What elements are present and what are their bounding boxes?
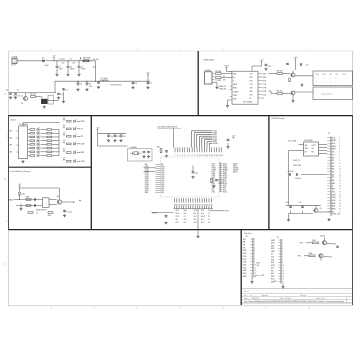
pin stub [187,206,189,209]
LED D15 [74,159,77,163]
pin stub [201,147,203,152]
pin stub [278,272,281,274]
pin stub [219,171,222,173]
connector J1 VIN input [11,56,18,66]
pin stub [208,147,210,152]
svg-text:IO15: IO15 [271,265,275,267]
svg-text:IO13: IO13 [161,190,165,192]
pin stub [278,261,281,263]
svg-text:IO0: IO0 [336,74,339,76]
wire [36,96,42,98]
svg-text:C: C [4,263,6,266]
capacitor C16 [34,204,36,207]
wire [327,243,333,245]
power +3V3 [232,135,236,138]
pin stub [16,151,19,153]
svg-text:USB_DP: USB_DP [219,86,227,88]
svg-text:C30: C30 [286,202,289,204]
svg-text:IO5: IO5 [176,219,179,221]
table note box [313,71,352,86]
wire [22,123,24,127]
svg-text:37: 37 [220,191,222,193]
pin stub [250,238,253,240]
svg-text:L1 10uH: L1 10uH [101,78,108,80]
svg-text:BS0: BS0 [332,203,335,205]
resistor R4 [277,70,283,75]
svg-text:CHREN: CHREN [233,91,238,93]
pin stub [278,250,281,252]
wire [288,151,290,206]
resistor R35 [289,78,291,82]
pin stub [203,198,205,202]
capacitor C4 [77,81,82,86]
connector J4 body [252,238,254,278]
svg-text:8: 8 [192,155,193,157]
svg-text:BOOT: BOOT [201,216,205,218]
pin stub [183,206,185,209]
svg-text:IO2: IO2 [271,268,274,270]
wire [77,128,80,130]
right pin numbers [220,163,222,193]
svg-text:RW: RW [332,189,335,191]
pin stub [327,142,331,144]
ground [57,96,60,99]
svg-text:C5: C5 [89,84,91,86]
connector J3 pin labels [332,137,337,213]
ground [62,100,65,103]
ground [165,155,168,158]
wire [261,63,263,66]
wire [324,238,326,241]
svg-text:R32 10k: R32 10k [218,179,224,181]
pin stub [327,176,331,178]
svg-text:USB-UART: USB-UART [204,58,216,61]
wire [204,139,212,141]
connector J4 net labels [243,239,247,278]
pin stub [194,198,196,202]
pin stub [184,147,186,152]
svg-text:SCL: SCL [332,143,335,145]
svg-text:VSL: VSL [332,191,335,193]
svg-text:D+: D+ [233,77,235,79]
svg-text:R33: R33 [312,240,315,242]
pin stub [278,267,281,269]
pin stub [191,147,193,152]
svg-text:SCL: SCL [257,265,260,267]
resistor R1 [30,94,36,98]
wire [25,93,27,97]
wire [95,61,97,81]
ground [146,86,149,89]
pin stub [250,244,253,246]
pin stub [327,196,331,198]
svg-text:CHR1: CHR1 [233,95,237,97]
svg-text:TPS62080DSG: TPS62080DSG [110,84,122,86]
svg-text:RTS: RTS [323,74,326,76]
LED D5 [37,138,40,142]
pin stub [219,175,222,177]
svg-text:17: 17 [339,183,341,185]
connector J2 USB [205,70,215,84]
svg-text:+3V3: +3V3 [96,127,100,129]
svg-text:IO27: IO27 [213,134,217,136]
pin stub [327,171,331,173]
svg-text:IO35: IO35 [161,172,165,174]
svg-text:IO27: IO27 [243,267,247,269]
ground [97,86,100,89]
connector J4 pin numbers [254,239,256,278]
pin stub [327,154,331,156]
transistor Q6 [322,241,327,245]
svg-text:J5: J5 [277,237,279,239]
pin stub [327,162,331,164]
pin stub [155,169,160,171]
svg-text:CS: CS [184,216,186,218]
svg-text:Q1: Q1 [21,103,23,105]
pin stub [180,206,182,209]
pin stub [327,182,331,184]
wire [271,93,277,95]
power +3V3 [63,133,66,136]
wire [201,138,203,147]
power +3V3 [146,72,150,76]
svg-text:10uF: 10uF [59,69,63,71]
pin stub [28,129,31,131]
pin stub [250,275,253,277]
svg-text:10: 10 [339,163,341,165]
resistor R16 [47,136,52,138]
svg-text:IO17: IO17 [271,279,275,281]
capacitor C12 [265,64,268,67]
LED D8 [37,149,40,153]
resistor R2 [215,71,222,75]
svg-text:12: 12 [282,270,284,272]
wire [203,140,205,148]
wire [269,90,272,92]
wire [63,92,65,100]
wire [191,131,193,148]
resistor R8 [30,136,35,138]
right pin net labels [223,164,228,194]
capacitor C1 [56,61,63,73]
svg-text:22: 22 [339,197,341,199]
ground [291,100,294,103]
junction [56,60,57,61]
svg-text:IO0: IO0 [271,270,274,272]
svg-text:SCL: SCL [184,213,187,215]
pin stub [327,137,331,139]
pin stub [199,206,201,209]
wire [269,73,278,75]
ground [287,219,290,222]
pin stub [278,275,281,277]
wire [295,75,313,77]
LED D12 [74,134,77,138]
bottom net labels group 1 [176,209,188,224]
wire [52,143,59,145]
LED D2 [37,127,40,131]
pin stub [194,147,196,152]
junction [77,81,78,82]
svg-text:0: 0 [323,78,324,80]
wire bus [58,130,60,156]
pin stub [190,198,192,202]
svg-text:3: 3 [179,155,180,157]
power +5V USB [224,65,230,69]
ground [9,96,12,99]
svg-text:SD1: SD1 [271,262,274,264]
wire [207,141,213,143]
wire [41,132,48,134]
ground [131,86,134,89]
svg-text:MTDO: MTDO [233,164,238,166]
svg-text:IO36: IO36 [161,166,165,168]
svg-text:IO32: IO32 [243,256,247,258]
capacitor C34 [97,81,100,84]
pin stub [201,198,203,202]
capacitor C24 [227,139,230,142]
capacitor C2 [67,61,75,73]
pin stub [199,147,201,152]
pin stub [219,183,222,185]
pin stub [250,252,253,254]
svg-text:16: 16 [339,180,341,182]
svg-text:C29 1uF: C29 1uF [295,178,301,180]
svg-text:IO0: IO0 [330,257,333,259]
svg-text:9: 9 [194,155,195,157]
LED D13 [74,141,77,145]
capacitor C13 [300,63,302,66]
svg-text:OLED_RES: OLED_RES [293,165,301,167]
svg-text:U1: U1 [41,97,43,99]
svg-text:OLED_VCC: OLED_VCC [332,214,342,216]
pin stub [28,132,31,134]
wire [252,65,262,67]
svg-text:SD0: SD0 [271,259,274,261]
svg-text:C12: C12 [268,66,271,68]
svg-text:U0RXD: U0RXD [233,170,239,172]
pin stub [174,206,176,209]
resistor R32 [211,179,213,183]
svg-text:21: 21 [339,194,341,196]
pin stub RXD [258,76,262,78]
svg-text:15: 15 [282,279,284,281]
connector J5 pin numbers [282,240,284,284]
svg-text:IO32: IO32 [161,174,165,176]
wire [289,213,314,215]
pin stub [192,198,194,202]
svg-text:R28: R28 [26,197,29,199]
connector J5 body [280,239,282,284]
transistor Q7 [318,254,323,258]
power +3V3 [260,59,264,63]
pin stub [178,206,180,209]
ground [66,73,69,76]
svg-text:1: 1 [316,78,317,80]
ground [107,139,110,142]
pin stub [219,177,222,179]
pin stub [155,177,160,179]
wire [226,69,228,72]
resistor R5 [277,91,283,95]
wire [319,144,328,146]
svg-text:25: 25 [220,167,222,169]
svg-text:IO16: IO16 [271,276,275,278]
pin stub [155,179,160,181]
pin stub [155,187,160,189]
pin stub [219,181,222,183]
wire [52,155,59,157]
resistor R26 [67,152,72,154]
svg-text:R30: R30 [48,215,51,217]
wire [48,100,59,102]
pin stub [203,147,205,152]
svg-text:18: 18 [339,186,341,188]
IC U1 regulator [41,97,48,104]
svg-text:29: 29 [220,175,222,177]
svg-text:1: 1 [336,81,337,83]
svg-text:IO13: IO13 [225,211,229,213]
inductor L1 [101,78,109,81]
svg-text:J1 VIN: J1 VIN [12,56,18,58]
wire [330,214,332,217]
svg-text:SD2: SD2 [271,245,274,247]
svg-text:27: 27 [339,211,341,213]
junction [147,81,148,82]
pin stub [327,159,331,161]
svg-text:C8: C8 [6,89,8,91]
wire [52,151,59,153]
IC U2 CP2102N [230,71,259,104]
wire [306,242,313,244]
svg-text:12: 12 [254,270,256,272]
svg-text:+3V3: +3V3 [232,135,236,137]
svg-text:SENS: SENS [213,143,217,145]
wire [292,70,294,73]
resistor R29 [26,205,31,207]
bottom pin number row [174,203,213,206]
pin stub [250,261,253,263]
svg-text:11: 11 [254,267,256,269]
wire [77,152,80,154]
svg-text:D2: D2 [332,163,334,165]
pin stub [278,242,281,244]
svg-text:13: 13 [282,273,284,275]
junction [67,60,68,61]
LED D10 [74,119,77,123]
svg-text:D3: D3 [332,166,334,168]
ground [142,155,145,158]
ferrite bead FB1 [83,58,91,62]
svg-text:+5V 1A: +5V 1A [93,58,99,61]
wire [144,171,156,173]
pin stub [28,147,31,149]
wire [319,147,328,149]
ground [21,160,24,163]
wire [173,128,175,147]
svg-text:+3V3: +3V3 [261,275,265,277]
svg-text:SD2: SD2 [145,192,148,194]
wire [202,137,213,139]
value label cluster [59,59,72,61]
wire [46,60,54,62]
wire [221,77,232,79]
bottom net labels group 2 [194,210,211,224]
pin stub [178,198,180,202]
svg-text:Q5: Q5 [320,208,322,210]
svg-text:11: 11 [282,268,284,270]
pin stub [278,281,281,283]
wire [197,133,213,135]
resistor R13 [30,155,35,157]
svg-text:IO26: IO26 [161,180,165,182]
IC U3 ULN2003 [19,124,28,159]
resistor R23 [67,128,72,130]
resistor R36 [28,212,33,214]
svg-text:10: 10 [282,265,284,267]
capacitor C29 [295,173,301,180]
ground [119,139,122,142]
svg-text:36: 36 [220,189,222,191]
svg-text:BAT+: BAT+ [9,198,13,201]
ground [226,146,229,149]
ground [212,185,215,188]
resistor R24 [67,136,72,138]
svg-text:D16: D16 [22,193,25,195]
svg-text:IO25: IO25 [243,262,247,264]
power +3V3 [63,118,66,121]
svg-text:Driver: Driver [11,120,17,122]
wire [196,134,198,147]
pin stub [327,179,331,181]
LED D3 [37,131,40,135]
wire [41,136,48,138]
svg-text:Li-Ion Battery Charger: Li-Ion Battery Charger [10,170,31,173]
svg-text:C6: C6 [135,83,137,85]
wire [221,73,232,75]
svg-text:BS2: BS2 [332,209,335,211]
pin stub [189,147,191,152]
svg-text:2: 2 [177,155,178,157]
resistor R10 [30,144,35,146]
svg-text:5: 5 [184,155,185,157]
capacitor C28 [288,171,294,176]
pin stub DSR [258,90,262,92]
power arrow VBAT [79,200,81,202]
pin stub CTS [258,83,262,85]
transistor Q2 [290,73,295,77]
svg-text:20: 20 [339,191,341,193]
svg-text:26: 26 [220,169,222,171]
feedback box [48,95,54,104]
resistor R33 [312,240,318,244]
pin stub [28,155,31,157]
ground [63,214,66,217]
capacitor C23 [165,150,168,153]
svg-text:IO0: IO0 [194,216,197,218]
pin stub [219,185,222,187]
wire [319,150,328,152]
wire [209,143,211,147]
svg-text:Size: Size [244,295,247,297]
svg-text:IO39: IO39 [161,168,165,170]
pin stub [250,241,253,243]
wire [41,147,48,149]
svg-text:R34: R34 [309,252,312,255]
svg-text:C20: C20 [123,136,126,138]
power flag [80,58,82,60]
capacitor C21 [143,151,146,153]
